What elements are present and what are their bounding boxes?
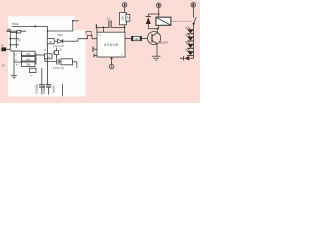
terminal X2 (top middle) (156, 3, 161, 8)
svg-text:4451.0N: 4451.0N (53, 66, 64, 70)
svg-text:47k: 47k (26, 52, 31, 56)
left bus (9, 31, 11, 49)
top link wire (10, 50, 22, 52)
terminal X1 (top left supply point) (122, 3, 127, 8)
LED D4 (186, 48, 194, 55)
ladder rung 1 + box (10, 31, 20, 33)
svg-text:C3100µ: C3100µ (35, 84, 39, 94)
svg-text:TR4: TR4 (57, 33, 63, 37)
resistor R5 (22, 62, 36, 67)
svg-text:4060B: 4060B (104, 43, 118, 47)
svg-text:BC547: BC547 (160, 41, 169, 45)
svg-text:39k: 39k (26, 63, 31, 67)
corner wire (45, 59, 57, 62)
label R9 (126, 14, 130, 21)
LED D2 (186, 34, 194, 41)
svg-text:1N: 1N (0, 50, 3, 52)
resistor R11 (small) (30, 68, 37, 72)
connector pad (1, 47, 6, 51)
capacitor C2 (42, 84, 51, 95)
resistor R10 (132, 36, 142, 40)
ladder rung 3 (10, 44, 18, 46)
svg-text:2x16V: 2x16V (52, 85, 56, 93)
second ladder rail (15, 31, 17, 48)
IC1 left pin stub 2 (94, 54, 97, 58)
svg-text:TR2o: TR2o (12, 22, 20, 26)
main riser x47.5 (47, 31, 49, 39)
IC1 bottom pin wire (111, 57, 113, 64)
diode D6 (bottom, horizontal) (180, 56, 194, 61)
svg-text:10k: 10k (26, 57, 31, 61)
wire diode anode to collector node (148, 28, 158, 30)
ground G1 (11, 75, 17, 78)
transistor T1 (148, 31, 161, 44)
wire X2 down (158, 7, 160, 17)
node top rail (158, 13, 160, 15)
right link of R stack (35, 53, 37, 64)
relay coil K1 (156, 17, 171, 25)
svg-text:1N: 1N (0, 44, 3, 47)
resistor R9 (120, 12, 127, 24)
resistor R3 (22, 51, 36, 56)
terminal X4 (below IC1) (109, 64, 114, 69)
white schematic panel (stepped) (8, 16, 86, 96)
svg-text:1k5: 1k5 (134, 37, 139, 41)
wire X3 down to contact (193, 7, 195, 17)
resistor R4 (22, 57, 36, 62)
LED D1 (186, 27, 194, 34)
terminal X3 (top right) (191, 3, 196, 8)
ladder rung 2 (10, 38, 18, 40)
wire R9 to IC1 pin with junction (124, 25, 126, 32)
wire B (6, 30, 26, 32)
IC1 left pin stub with bar (93, 46, 97, 52)
LED D3 (186, 41, 194, 48)
svg-text:2N: 2N (2, 64, 5, 68)
capacitor C5 (103, 17, 124, 27)
collector wire (156, 29, 158, 33)
riser to top stub (72, 20, 78, 31)
stub plate / pin bar left of C5 (96, 24, 103, 32)
left link of R stack (21, 53, 23, 64)
box X5 (61, 59, 73, 65)
coil bottom pin (158, 25, 160, 28)
IC1 right pin wire (125, 37, 132, 39)
diode D5 (flyback) (146, 14, 151, 29)
dashed actuation link (171, 20, 192, 22)
ground under T1 (152, 56, 161, 60)
svg-text:10k: 10k (121, 16, 125, 21)
wire R10 to base (142, 37, 148, 39)
svg-text:1M: 1M (127, 16, 129, 19)
bottom stub wire (62, 84, 64, 96)
wire stack to riser (36, 52, 54, 59)
svg-text:C4100n: C4100n (42, 84, 46, 94)
capacitor C1 (35, 84, 45, 95)
box T2 (47, 39, 54, 44)
top rail wire (148, 13, 158, 15)
box B8 (55, 51, 59, 55)
relay contact arm (193, 17, 197, 29)
diode D7 (55, 39, 79, 43)
input connector circle (8, 29, 11, 32)
emitter wire (156, 44, 158, 56)
corner wire near step (86, 31, 91, 35)
cap C1 riser (41, 68, 43, 85)
wire top A (12, 25, 48, 27)
riser x56.5 (56, 48, 58, 51)
wire into IC1 left (jogged) (78, 35, 97, 38)
op IC1 4060B (97, 32, 125, 57)
gnd riser (13, 51, 15, 75)
capacitor C6 (horizontal) (57, 59, 61, 65)
wire terminal X1 to R9 (124, 7, 126, 12)
svg-text:4R: 4R (18, 40, 21, 42)
node under C5 to IC pin (103, 27, 105, 33)
gnd branch wire (14, 61, 22, 63)
